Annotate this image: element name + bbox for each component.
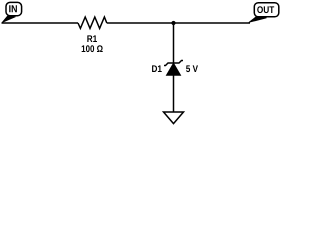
zener diode D1 cathode bar — [164, 61, 183, 66]
wire junction down to D1 — [173, 23, 175, 63]
value 5 V — [186, 65, 198, 72]
label D1 — [152, 65, 162, 72]
ground — [164, 112, 184, 124]
junction node — [171, 21, 175, 25]
value 100 ohm — [82, 45, 103, 52]
net flag IN box — [6, 2, 22, 15]
label R1 — [87, 35, 97, 42]
wire resistor to OUT — [107, 22, 250, 24]
resistor R1 — [78, 17, 107, 28]
net flag IN tail — [2, 16, 15, 23]
zener diode D1 anode triangle — [167, 63, 181, 75]
wire IN to resistor R1 — [2, 22, 79, 24]
net flag OUT tail — [249, 16, 267, 22]
net label IN — [9, 5, 17, 12]
wire D1 to ground — [173, 75, 175, 112]
net label OUT — [257, 6, 274, 13]
net flag OUT box — [254, 3, 278, 17]
